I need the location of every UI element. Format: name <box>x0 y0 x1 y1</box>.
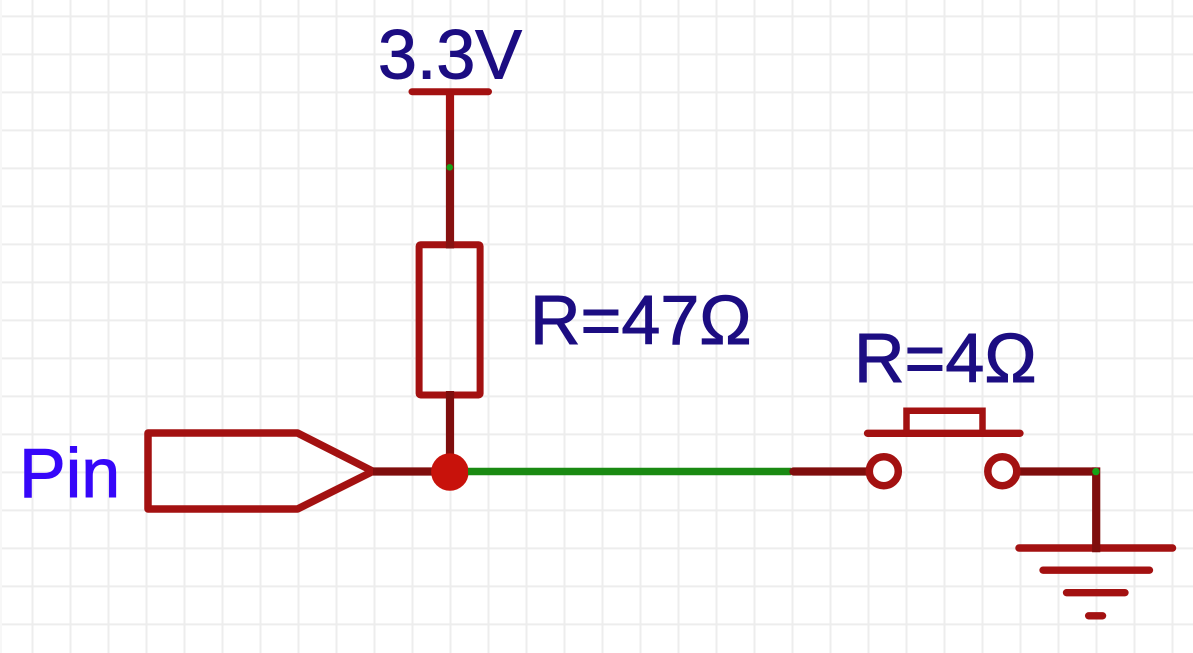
svg-text:Pin: Pin <box>19 434 120 512</box>
svg-text:R=47Ω: R=47Ω <box>530 281 752 359</box>
svg-text:R=4Ω: R=4Ω <box>854 319 1037 397</box>
svg-text:3.3V: 3.3V <box>378 15 522 93</box>
